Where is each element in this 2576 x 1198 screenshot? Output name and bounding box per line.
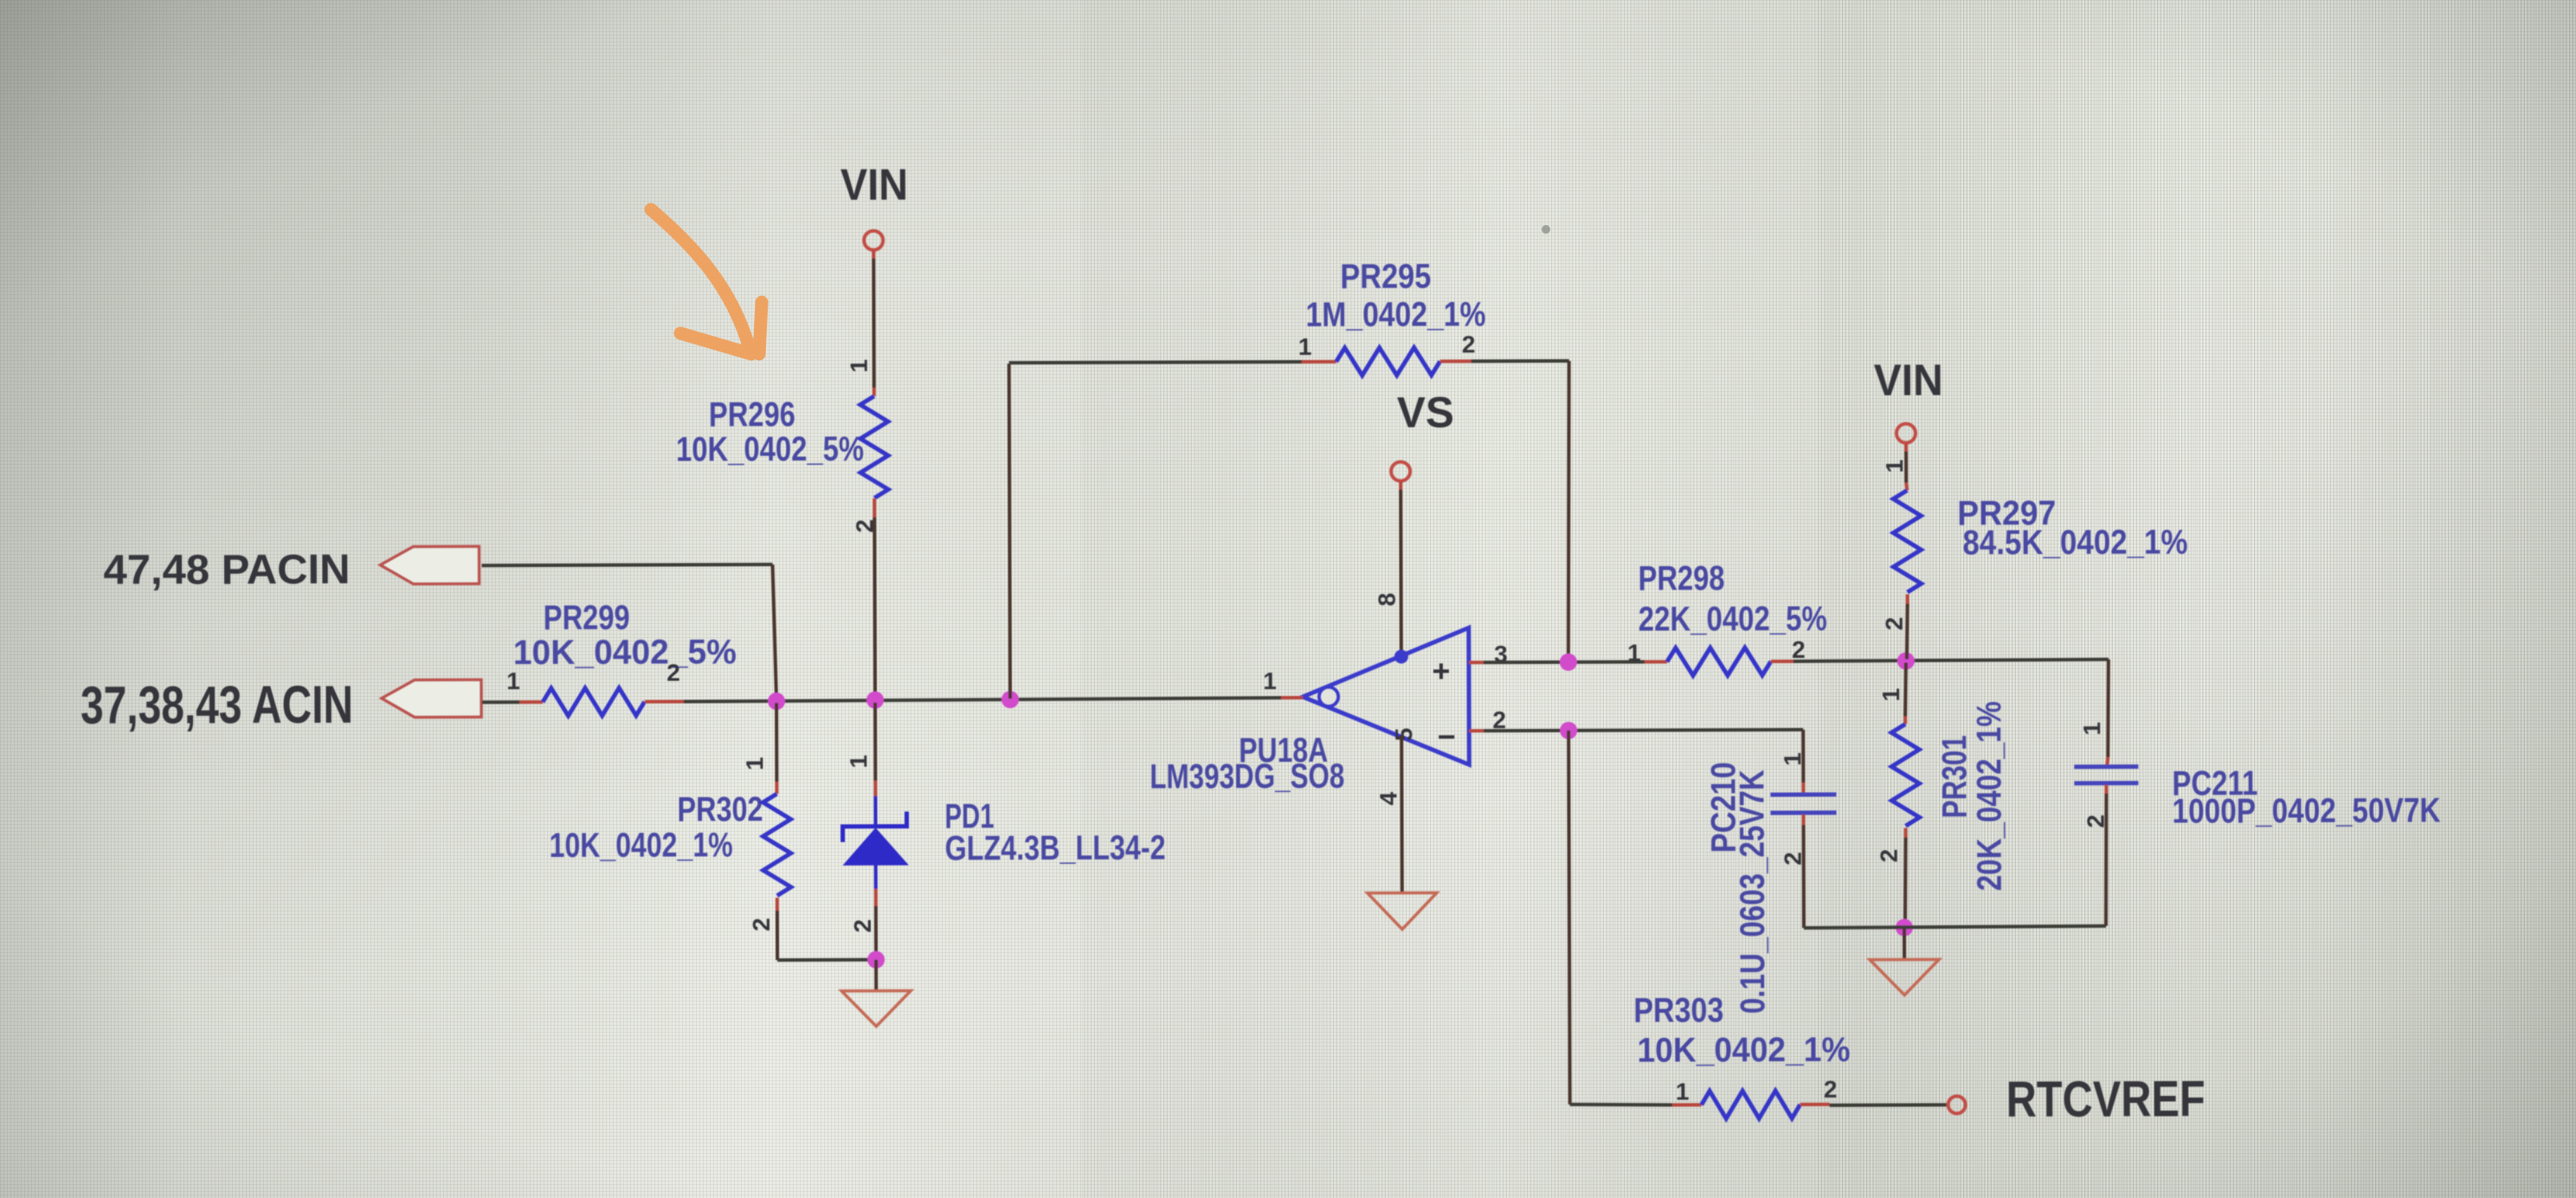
junction +input/feedback: [1560, 654, 1577, 671]
svg-text:2: 2: [1876, 849, 1903, 863]
resistor PR297 (vertical zigzag): [1893, 490, 1921, 592]
svg-text:PR303: PR303: [1633, 991, 1723, 1029]
capacitor PC210 plates: [1770, 795, 1836, 813]
junction PR297/PR301 divider: [1897, 653, 1915, 670]
svg-text:1: 1: [1881, 460, 1908, 473]
resistor PR299 (horizontal zigzag): [543, 688, 645, 716]
svg-text:VIN: VIN: [840, 160, 908, 209]
svg-text:1: 1: [1627, 640, 1641, 667]
wire divider junction down to PR301: [1905, 663, 1906, 717]
junction PR302/PD1 ground node: [867, 951, 885, 969]
svg-text:LM393DG_SO8: LM393DG_SO8: [1150, 757, 1344, 796]
wire feedback vertical (output to PR295 pin 1): [1009, 364, 1010, 699]
wire PR295 pin 2 to corner: [1472, 359, 1569, 363]
wire PR302 pin 2 to ground rail: [776, 898, 779, 911]
resistor PR295 (horizontal zigzag): [1302, 360, 1336, 364]
wire -input pin 2 net: [1469, 729, 1484, 732]
capacitor PC211 plates: [2074, 767, 2138, 783]
wire PR298 pin 2 to VIN divider node: [1794, 660, 2109, 661]
wire junction to ground symbol: [874, 960, 878, 991]
svg-text:8: 8: [1374, 593, 1401, 607]
op-amp PU18A (comparator triangle, output left): [1303, 628, 1470, 765]
svg-text:1000P_0402_50V7K: 1000P_0402_50V7K: [2172, 791, 2440, 830]
svg-text:2: 2: [748, 918, 775, 931]
junction ACIN/PR302: [768, 692, 785, 710]
svg-text:PR295: PR295: [1340, 257, 1431, 295]
wire -input vertical corner to PR303 pin 1: [1570, 1104, 1672, 1105]
wire divider node corner down to PC211 pin 1: [2108, 660, 2109, 757]
svg-text:10K_0402_1%: 10K_0402_1%: [550, 826, 733, 865]
wire bottom rail PC210 to PC211: [1804, 926, 2106, 928]
svg-text:2: 2: [1462, 331, 1476, 357]
output stub of PU18A: [1281, 696, 1303, 699]
svg-text:0.1U_0603_25V7K: 0.1U_0603_25V7K: [1733, 770, 1772, 1014]
svg-text:84.5K_0402_1%: 84.5K_0402_1%: [1962, 523, 2187, 562]
wire PR301 pin 2 down to ground junction: [1904, 828, 1908, 838]
svg-text:2: 2: [1881, 617, 1908, 631]
plus marking of PU18A: [1433, 663, 1449, 679]
wire PR296 pin 2 down to ACIN net: [873, 499, 876, 518]
svg-text:10K_0402_1%: 10K_0402_1%: [1637, 1031, 1850, 1070]
svg-text:RTCVREF: RTCVREF: [2006, 1071, 2206, 1128]
resistor PR298 (horizontal zigzag): [1645, 660, 1667, 664]
ground (PR301/PC210/PC211): [1870, 959, 1939, 995]
svg-text:1: 1: [1877, 688, 1904, 702]
wire VIN terminal to PR296 pin 1: [872, 251, 875, 259]
junction -input/PR303: [1560, 722, 1577, 739]
minus marking of PU18A: [1439, 735, 1454, 738]
wire ACIN junction down to PD1: [873, 703, 877, 781]
svg-text:PR302: PR302: [677, 790, 763, 828]
svg-text:PR299: PR299: [544, 599, 630, 637]
svg-text:5: 5: [1390, 728, 1417, 742]
svg-text:1: 1: [2078, 722, 2105, 736]
svg-text:1: 1: [1298, 333, 1312, 360]
svg-text:GLZ4.3B_LL34-2: GLZ4.3B_LL34-2: [945, 829, 1166, 868]
resistor PR296 (vertical zigzag): [860, 396, 888, 499]
wire VIN terminal to PR297: [1904, 444, 1908, 452]
wire PACIN corner down to ACIN net: [772, 564, 776, 699]
resistor PR301 (vertical zigzag): [1891, 724, 1919, 826]
svg-text:PR296: PR296: [709, 396, 795, 434]
svg-text:1: 1: [845, 755, 872, 769]
wire feedback corner down to +input net: [1568, 361, 1570, 660]
wire ACIN net to op-amp output pin 1: [684, 698, 1303, 701]
svg-text:2: 2: [849, 919, 876, 933]
dust speck on screen: [1542, 225, 1550, 234]
wire PR299 pin 2 stub: [645, 699, 684, 703]
wire +input pin 3 to PR298: [1469, 660, 1484, 664]
orange annotation arrow pointing at PR296: [651, 209, 762, 354]
svg-text:VIN: VIN: [1874, 355, 1943, 404]
svg-text:37,38,43 ACIN: 37,38,43 ACIN: [80, 675, 353, 735]
svg-text:2: 2: [1792, 636, 1806, 663]
svg-text:1: 1: [846, 359, 873, 373]
wire VS terminal down to op-amp pin 8: [1399, 482, 1402, 490]
svg-text:1: 1: [1676, 1078, 1690, 1105]
svg-text:VS: VS: [1397, 388, 1454, 436]
svg-text:20K_0402_1%: 20K_0402_1%: [1970, 701, 2009, 891]
svg-text:47,48 PACIN: 47,48 PACIN: [103, 547, 350, 594]
svg-text:1: 1: [1779, 752, 1806, 766]
wire PR297 pin 2 to divider junction: [1906, 595, 1909, 604]
junction ACIN/PR296/PD1: [866, 692, 884, 709]
resistor PR303 (horizontal zigzag): [1702, 1091, 1800, 1118]
junction ACIN/feedback: [1001, 691, 1019, 708]
svg-text:4: 4: [1375, 791, 1401, 805]
svg-text:PR301: PR301: [1935, 735, 1974, 818]
svg-text:PR298: PR298: [1638, 559, 1724, 597]
wire ACIN connector to PR299 pin 1: [482, 700, 519, 704]
node RTCVREF (output terminal): [1948, 1096, 1966, 1113]
svg-text:10K_0402_5%: 10K_0402_5%: [513, 633, 737, 672]
wire -input net corner down to PC210 pin 1: [1801, 730, 1805, 783]
wire PC210 pin 2 down to bottom rail: [1801, 815, 1805, 825]
svg-text:22K_0402_5%: 22K_0402_5%: [1639, 600, 1827, 639]
pin 8 connection dot on triangle edge: [1394, 650, 1408, 664]
wire junction down to PR302: [775, 703, 778, 782]
diode PD1 (zener, cathode bar with hooks): [842, 812, 906, 842]
wire junction to ground symbol: [1903, 928, 1906, 960]
svg-text:2: 2: [667, 659, 680, 686]
svg-text:2: 2: [1824, 1076, 1838, 1103]
wire PR303 pin 2 to RTCVREF terminal: [1800, 1103, 1830, 1106]
junction ground node PR301/PC210/PC211: [1896, 919, 1913, 937]
wire -input junction down to PR303: [1568, 731, 1570, 1105]
resistor PR302 (vertical zigzag): [763, 794, 790, 896]
ground (PD1/PR302): [841, 991, 911, 1027]
wire op-amp pin 4 down to ground: [1400, 736, 1404, 893]
svg-text:1M_0402_1%: 1M_0402_1%: [1305, 295, 1485, 334]
wire PC211 pin 2 down to bottom rail: [2104, 785, 2108, 794]
wire PD1 anode down to ground junction: [874, 865, 878, 889]
ground (PU18A): [1368, 892, 1437, 929]
svg-text:1: 1: [741, 757, 768, 770]
svg-text:10K_0402_5%: 10K_0402_5%: [676, 430, 864, 469]
svg-text:1: 1: [1263, 667, 1277, 694]
wire PACIN to corner: [481, 564, 772, 565]
